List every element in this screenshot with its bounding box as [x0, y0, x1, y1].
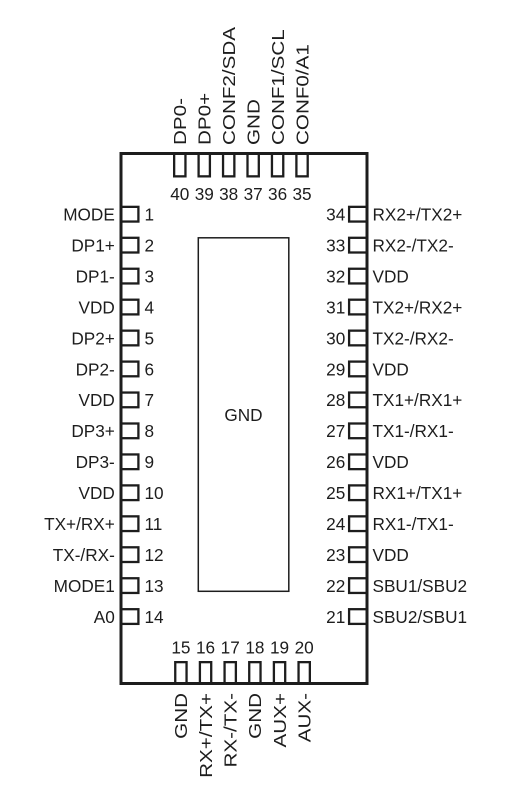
pin 13 pad	[121, 578, 139, 593]
svg-text:24: 24	[326, 514, 346, 534]
svg-text:TX+/RX+: TX+/RX+	[44, 514, 115, 534]
svg-text:33: 33	[326, 235, 345, 255]
svg-text:10: 10	[145, 483, 164, 503]
svg-text:7: 7	[145, 390, 155, 410]
pin 35 pad	[296, 154, 307, 177]
svg-text:3: 3	[145, 266, 155, 286]
pin 40 pad	[174, 154, 185, 177]
svg-text:DP0-: DP0-	[172, 98, 191, 145]
svg-text:1: 1	[145, 205, 155, 225]
svg-text:25: 25	[326, 483, 345, 503]
svg-text:40: 40	[170, 184, 189, 204]
pin 19 pad	[274, 662, 285, 683]
svg-text:DP0+: DP0+	[196, 93, 215, 145]
svg-text:21: 21	[326, 607, 345, 627]
IC package body U1	[121, 154, 367, 684]
svg-text:5: 5	[145, 328, 155, 348]
pin 28 pad	[349, 393, 367, 408]
pin 32 pad	[349, 269, 367, 284]
svg-text:32: 32	[326, 266, 345, 286]
pin 31 pad	[349, 300, 367, 315]
pin 5 pad	[121, 331, 139, 346]
pin 24 pad	[349, 516, 367, 531]
svg-text:39: 39	[195, 184, 214, 204]
svg-text:35: 35	[292, 184, 311, 204]
svg-text:MODE1: MODE1	[54, 576, 115, 596]
svg-text:RX2-/TX2-: RX2-/TX2-	[373, 235, 454, 255]
svg-text:DP2+: DP2+	[71, 328, 114, 348]
svg-text:TX1-/RX1-: TX1-/RX1-	[373, 421, 454, 441]
svg-text:RX1+/TX1+: RX1+/TX1+	[373, 483, 463, 503]
svg-text:VDD: VDD	[373, 359, 409, 379]
svg-text:17: 17	[221, 637, 240, 657]
pin 33 pad	[349, 238, 367, 253]
svg-text:VDD: VDD	[373, 452, 409, 472]
svg-text:36: 36	[268, 184, 287, 204]
svg-text:26: 26	[326, 452, 345, 472]
svg-text:CONF2/SDA: CONF2/SDA	[220, 27, 239, 145]
svg-text:GND: GND	[245, 99, 264, 145]
svg-text:VDD: VDD	[373, 266, 409, 286]
svg-text:VDD: VDD	[79, 390, 115, 410]
pin 12 pad	[121, 547, 139, 562]
svg-text:23: 23	[326, 545, 345, 565]
svg-text:RX2+/TX2+: RX2+/TX2+	[373, 205, 463, 225]
svg-text:30: 30	[326, 328, 345, 348]
pin 26 pad	[349, 454, 367, 469]
svg-text:CONF1/SCL: CONF1/SCL	[269, 29, 288, 145]
svg-text:VDD: VDD	[373, 545, 409, 565]
svg-text:DP3-: DP3-	[76, 452, 115, 472]
pin 10 pad	[121, 485, 139, 500]
svg-text:VDD: VDD	[79, 297, 115, 317]
svg-text:38: 38	[219, 184, 238, 204]
svg-text:37: 37	[244, 184, 263, 204]
svg-text:DP1+: DP1+	[71, 235, 114, 255]
svg-text:TX-/RX-: TX-/RX-	[53, 545, 115, 565]
svg-text:20: 20	[295, 637, 314, 657]
svg-text:22: 22	[326, 576, 345, 596]
pin 18 pad	[249, 662, 260, 683]
svg-text:MODE: MODE	[63, 205, 115, 225]
svg-text:9: 9	[145, 452, 155, 472]
pin 11 pad	[121, 516, 139, 531]
svg-text:34: 34	[326, 205, 346, 225]
svg-text:2: 2	[145, 235, 155, 255]
svg-text:19: 19	[270, 637, 289, 657]
svg-text:RX1-/TX1-: RX1-/TX1-	[373, 514, 454, 534]
svg-text:6: 6	[145, 359, 155, 379]
svg-text:SBU1/SBU2: SBU1/SBU2	[373, 576, 468, 596]
pin 37 pad	[248, 154, 259, 177]
svg-text:AUX+: AUX+	[271, 693, 290, 747]
pin 23 pad	[349, 547, 367, 562]
pin 27 pad	[349, 424, 367, 439]
pin 1 pad	[121, 207, 139, 222]
svg-text:CONF0/A1: CONF0/A1	[294, 44, 313, 145]
pin 8 pad	[121, 424, 139, 439]
svg-text:TX2+/RX2+: TX2+/RX2+	[373, 297, 463, 317]
svg-text:SBU2/SBU1: SBU2/SBU1	[373, 607, 468, 627]
svg-text:29: 29	[326, 359, 345, 379]
pin 16 pad	[200, 662, 211, 683]
svg-text:VDD: VDD	[79, 483, 115, 503]
svg-text:TX2-/RX2-: TX2-/RX2-	[373, 328, 454, 348]
pin 29 pad	[349, 362, 367, 377]
pin 30 pad	[349, 331, 367, 346]
svg-text:AUX-: AUX-	[296, 693, 315, 742]
pin 6 pad	[121, 362, 139, 377]
svg-text:27: 27	[326, 421, 345, 441]
svg-text:GND: GND	[247, 693, 266, 739]
svg-text:GND: GND	[224, 405, 262, 425]
pin 21 pad	[349, 609, 367, 624]
svg-text:TX1+/RX1+: TX1+/RX1+	[373, 390, 463, 410]
pin 14 pad	[121, 609, 139, 624]
exposed thermal pad GND	[198, 238, 288, 592]
pin 36 pad	[272, 154, 283, 177]
svg-text:DP1-: DP1-	[76, 266, 115, 286]
pin 3 pad	[121, 269, 139, 284]
svg-text:16: 16	[196, 637, 215, 657]
pin 38 pad	[223, 154, 234, 177]
pin 39 pad	[199, 154, 210, 177]
svg-text:4: 4	[145, 297, 155, 317]
pin 20 pad	[299, 662, 310, 683]
svg-text:14: 14	[145, 607, 165, 627]
pin 15 pad	[175, 662, 186, 683]
svg-text:RX-/TX-: RX-/TX-	[222, 693, 241, 767]
svg-text:GND: GND	[173, 693, 192, 739]
svg-text:DP2-: DP2-	[76, 359, 115, 379]
svg-text:DP3+: DP3+	[71, 421, 114, 441]
svg-text:8: 8	[145, 421, 155, 441]
pin 7 pad	[121, 393, 139, 408]
pin 34 pad	[349, 207, 367, 222]
svg-text:15: 15	[171, 637, 190, 657]
svg-text:18: 18	[245, 637, 264, 657]
pin 4 pad	[121, 300, 139, 315]
pin 25 pad	[349, 485, 367, 500]
svg-text:11: 11	[145, 514, 163, 534]
pin 2 pad	[121, 238, 139, 253]
svg-text:13: 13	[145, 576, 164, 596]
svg-text:A0: A0	[94, 607, 115, 627]
pin 17 pad	[225, 662, 236, 683]
pin 9 pad	[121, 454, 139, 469]
svg-text:28: 28	[326, 390, 345, 410]
svg-text:12: 12	[145, 545, 164, 565]
pin 22 pad	[349, 578, 367, 593]
svg-text:31: 31	[326, 297, 345, 317]
svg-text:RX+/TX+: RX+/TX+	[197, 693, 216, 778]
